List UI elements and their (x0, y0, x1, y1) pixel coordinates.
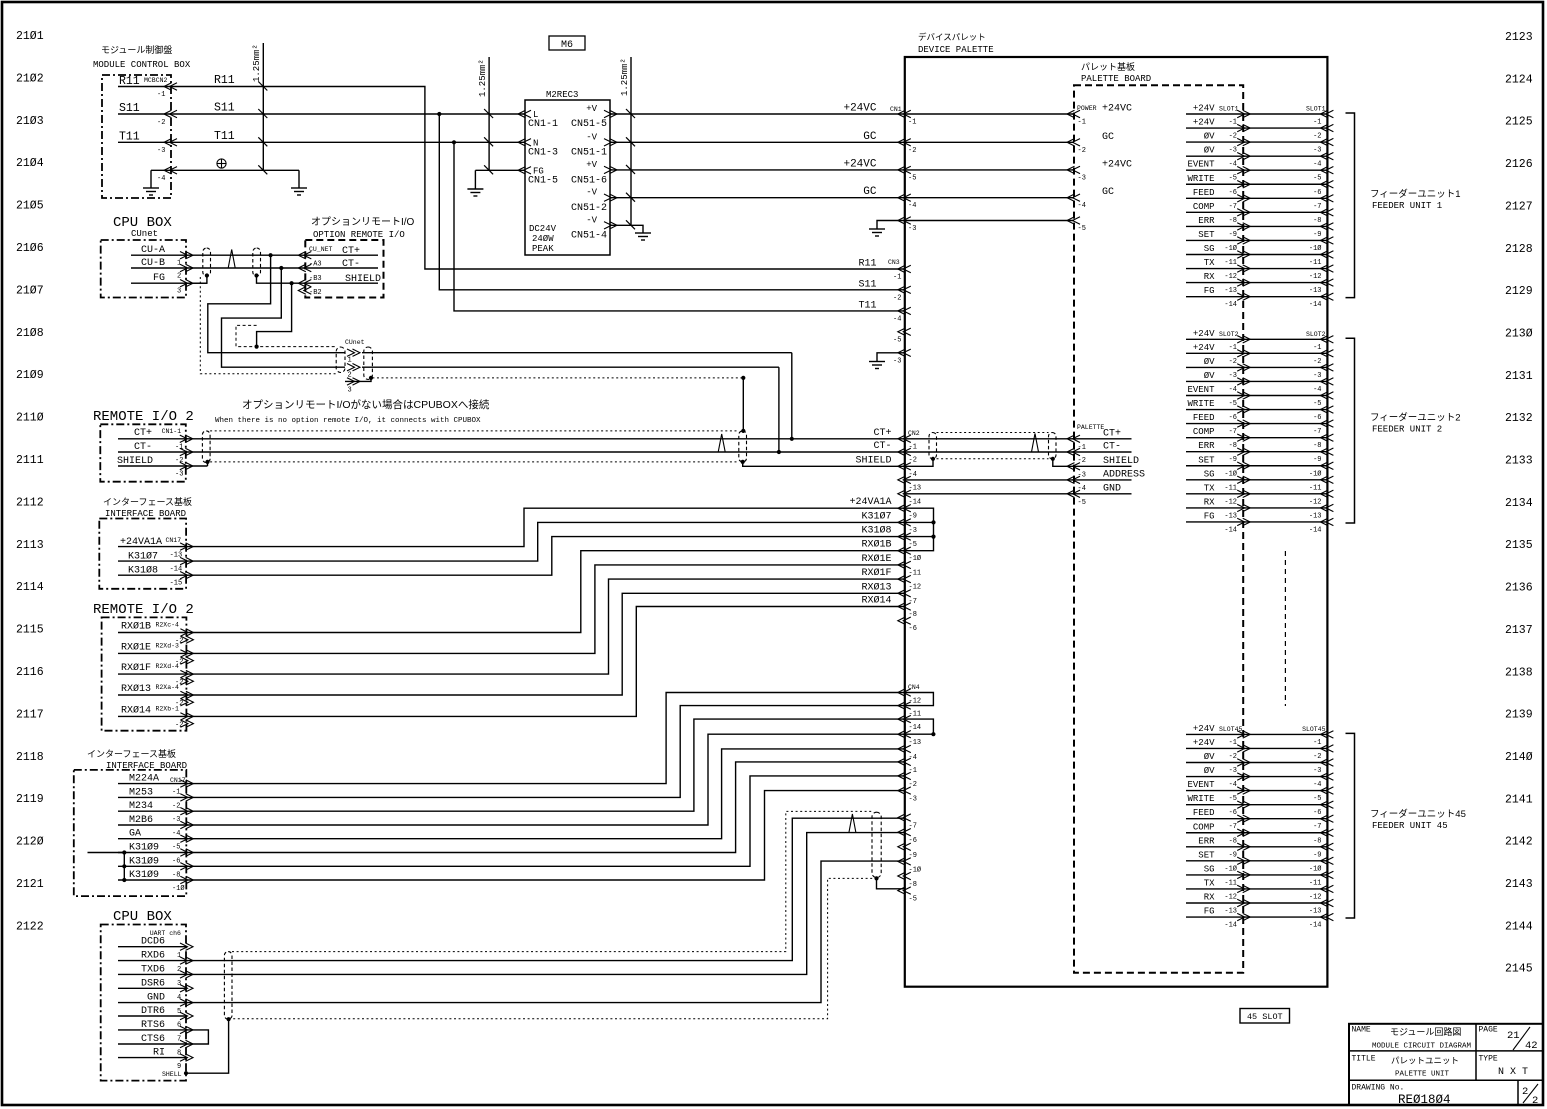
CN4 bus ladder pins -12 -11 (905, 693, 934, 706)
svg-text:-1Ø: -1Ø (1309, 469, 1322, 478)
svg-text:R2Xb-1: R2Xb-1 (156, 705, 180, 712)
CN1 pin -4 GC (898, 194, 906, 201)
wire shield drop to pair shield (742, 378, 744, 431)
svg-text:-12: -12 (1224, 893, 1237, 901)
M2REC3 pin CN51-2 -V (610, 194, 618, 201)
svg-text:-1: -1 (908, 119, 916, 127)
wire GA to CN4 (186, 749, 905, 839)
svg-text:+24V: +24V (1193, 118, 1215, 128)
CN3 pin -3 (898, 349, 906, 356)
twisted pair symbol UART at CN4 (849, 814, 856, 833)
svg-text:-3: -3 (893, 357, 901, 365)
svg-text:CN51-1: CN51-1 (571, 148, 607, 159)
M2REC3 pin CN1-3 N (518, 139, 526, 146)
svg-text:-7: -7 (909, 598, 917, 606)
svg-text:-9: -9 (1313, 851, 1321, 859)
svg-text:FEED: FEED (1193, 188, 1215, 198)
svg-text:FEEDER UNIT 1: FEEDER UNIT 1 (1372, 201, 1442, 211)
svg-text:R2Xd-4: R2Xd-4 (156, 663, 180, 670)
wire K3108 to CN2 (186, 537, 905, 576)
CN3 pin -4 T11 (898, 307, 906, 314)
wire from left edge to K3109 (88, 852, 125, 854)
PALETTE pin -5 GND (1074, 493, 1132, 495)
CN4 pin -13 (898, 731, 906, 738)
svg-text:-7: -7 (1313, 428, 1321, 436)
svg-text:-4: -4 (1229, 386, 1237, 394)
svg-text:45 SLOT: 45 SLOT (1247, 1012, 1283, 1022)
svg-text:SHIELD: SHIELD (855, 455, 891, 466)
wire RX013 to CN2 (186, 593, 905, 695)
remote I/O 2 lower outline (102, 617, 187, 730)
svg-text:MCBCN2: MCBCN2 (144, 77, 168, 84)
shield jog to PALETTE connector (1051, 457, 1055, 461)
svg-text:CT+: CT+ (873, 428, 891, 439)
wire RXD6 to CN4 (186, 818, 905, 960)
svg-text:GC: GC (863, 186, 877, 198)
svg-text:インターフェース基板: インターフェース基板 (87, 748, 176, 759)
svg-text:2114: 2114 (16, 581, 44, 594)
svg-text:-4: -4 (172, 830, 180, 838)
svg-text:-3: -3 (1078, 174, 1086, 182)
PALETTE pin -1 CT+ (1074, 438, 1132, 440)
svg-text:RXØ1E: RXØ1E (121, 641, 151, 653)
svg-text:-4: -4 (1078, 485, 1086, 493)
svg-text:1.25mm²: 1.25mm² (620, 58, 630, 96)
svg-text:-5: -5 (1313, 795, 1321, 803)
K3109 jumper junctions (123, 853, 125, 881)
svg-text:-5: -5 (893, 336, 901, 344)
svg-text:-B2: -B2 (309, 289, 322, 297)
svg-text:EVENT: EVENT (1187, 780, 1215, 790)
svg-text:-11: -11 (1309, 879, 1322, 887)
svg-text:FG: FG (1204, 907, 1215, 917)
svg-text:-5: -5 (1313, 400, 1321, 408)
svg-text:+24V: +24V (1193, 724, 1215, 734)
svg-text:CT+: CT+ (134, 428, 152, 439)
wire CT- to CN2 (186, 451, 905, 453)
CN2 pin -2 CT- (898, 448, 906, 455)
svg-text:RXØ1F: RXØ1F (861, 567, 891, 579)
svg-text:-4: -4 (1229, 781, 1237, 789)
svg-text:DRAWING No.: DRAWING No. (1352, 1084, 1405, 1093)
svg-text:TX: TX (1204, 483, 1215, 493)
svg-text:+V: +V (586, 160, 597, 170)
CPU box UART outline (101, 925, 186, 1081)
svg-text:R11: R11 (214, 74, 235, 87)
svg-text:+V: +V (586, 104, 597, 114)
svg-text:ØV: ØV (1204, 766, 1215, 776)
CN2 pin -3 K3107 (898, 519, 906, 526)
svg-text:-1: -1 (909, 767, 917, 775)
svg-text:WRITE: WRITE (1187, 174, 1214, 184)
CUnet mid pin 1 (353, 349, 361, 356)
SLOT45 wire row 11 SG (1186, 874, 1327, 876)
svg-text:REMOTE I/O 2: REMOTE I/O 2 (93, 409, 194, 425)
svg-text:COMP: COMP (1193, 202, 1215, 212)
svg-text:-1Ø: -1Ø (1224, 864, 1237, 873)
CN2 pin -1 CT+ (898, 435, 906, 442)
CN4 pin -8 (898, 872, 906, 879)
SLOT45 wire row 3 0V (1186, 762, 1327, 764)
svg-text:2125: 2125 (1505, 116, 1533, 129)
wire CT+ inside palette (905, 438, 1074, 440)
svg-text:INTERFACE BOARD: INTERFACE BOARD (105, 509, 186, 519)
svg-text:-7: -7 (1229, 203, 1237, 211)
svg-text:K31Ø7: K31Ø7 (861, 510, 891, 522)
svg-text:-B3: -B3 (309, 275, 322, 283)
svg-text:-8: -8 (1313, 837, 1321, 845)
SLOT2 wire row 9 ERR (1186, 451, 1327, 453)
UART cable shield capsule at CN4 (872, 812, 881, 877)
SLOT1 wire row 10 SET (1186, 239, 1327, 241)
svg-text:21Ø8: 21Ø8 (16, 327, 44, 340)
svg-text:-14: -14 (170, 566, 183, 574)
svg-text:K31Ø9: K31Ø9 (129, 855, 159, 867)
SLOT45 wire row 7 FEED (1186, 818, 1327, 820)
svg-text:-8: -8 (172, 871, 180, 879)
svg-text:SHIELD: SHIELD (1103, 456, 1139, 467)
svg-text:CN1-1: CN1-1 (528, 119, 558, 130)
wire CT+ to CN2 (186, 438, 905, 440)
SLOT45 wire row 14 FG (1186, 916, 1327, 918)
svg-text:R11: R11 (858, 259, 876, 270)
svg-text:RXØ1E: RXØ1E (861, 553, 891, 565)
CN2 pin -14 (898, 490, 906, 497)
svg-text:-13: -13 (1224, 512, 1237, 520)
svg-text:OPTION REMOTE I/O: OPTION REMOTE I/O (313, 230, 405, 240)
svg-text:-2: -2 (1229, 133, 1237, 141)
shield dotted drop from CPU box (200, 277, 336, 374)
svg-text:-2: -2 (1313, 753, 1321, 761)
SLOT45 wire row 1 +24V (1186, 733, 1327, 735)
SLOT2 wire row 11 SG (1186, 479, 1327, 481)
svg-text:TITLE: TITLE (1352, 1055, 1376, 1064)
MCBCN2 pin -4 ground (151, 169, 171, 171)
svg-text:-4: -4 (908, 202, 916, 210)
svg-text:-5: -5 (1313, 175, 1321, 183)
svg-text:-14: -14 (1224, 922, 1237, 930)
wire RX01E to CN2 (186, 565, 905, 654)
twisted pair symbol CUnet (228, 250, 235, 269)
wire +V CN51-6 to CN1-5 (610, 169, 905, 171)
CN4 bus ladder pins -14 -13 (905, 719, 934, 734)
shield dotted pair top line (210, 430, 739, 432)
wire M224A to CN4 (186, 693, 905, 784)
svg-text:-2: -2 (908, 147, 916, 155)
UART shield dotted top (232, 811, 872, 951)
shield dotted CUnet to drop (372, 377, 743, 379)
wire TXD6 to CN4 (186, 833, 905, 975)
svg-text:フィーダーユニット2: フィーダーユニット2 (1370, 412, 1461, 424)
SLOT1 wire row 5 EVENT (1186, 169, 1327, 171)
CN4 pin -14 (898, 715, 906, 722)
title block dividers (1349, 1050, 1543, 1052)
grid reference numbers left column (16, 30, 44, 933)
svg-text:2116: 2116 (16, 666, 44, 679)
svg-text:2136: 2136 (1505, 582, 1533, 595)
svg-text:2137: 2137 (1505, 624, 1533, 637)
svg-text:+24V: +24V (1193, 343, 1215, 353)
svg-text:RXØ14: RXØ14 (121, 704, 151, 716)
wire CN3-3 ground stub (877, 353, 905, 357)
svg-text:When there is no option remote: When there is no option remote I/O, it c… (215, 417, 481, 425)
svg-text:-V: -V (586, 133, 597, 143)
svg-text:RXØ1B: RXØ1B (121, 621, 151, 633)
feeder unit 45 bracket (1346, 733, 1355, 918)
svg-text:ØV: ØV (1204, 357, 1215, 367)
svg-text:ØV: ØV (1204, 752, 1215, 762)
wire CN1 to POWER -2 (905, 141, 1074, 143)
PALETTE pin -2 CT- (1074, 451, 1132, 453)
CN1 pin -2 GC (898, 139, 906, 146)
svg-text:-3: -3 (1229, 147, 1237, 155)
CN4 pin -7 (898, 814, 906, 821)
K3107 bus ladder at CN2 (905, 508, 934, 551)
svg-text:CN1: CN1 (890, 106, 902, 113)
svg-text:-4: -4 (909, 754, 917, 762)
svg-text:+24V: +24V (1193, 329, 1215, 339)
svg-text:212Ø: 212Ø (16, 836, 44, 849)
wire CN1 to POWER -3 (905, 169, 1074, 171)
svg-text:CN1-3: CN1-3 (528, 148, 558, 159)
svg-text:GND: GND (1103, 483, 1121, 494)
M2REC3 pin CN1-5 FG (518, 167, 526, 174)
title block outline (1349, 1024, 1543, 1105)
svg-text:-1: -1 (893, 274, 901, 282)
SLOT2 wire row 6 WRITE (1186, 409, 1327, 411)
svg-text:-11: -11 (1224, 879, 1237, 887)
SLOT45 wire row 5 EVENT (1186, 790, 1327, 792)
svg-text:MODULE CONTROL BOX: MODULE CONTROL BOX (93, 60, 191, 70)
svg-text:GC: GC (1102, 132, 1114, 143)
svg-text:-8: -8 (1229, 837, 1237, 845)
SLOT1 wire row 3 0V (1186, 141, 1327, 143)
svg-text:2133: 2133 (1505, 455, 1533, 468)
wire S11 branch to CN3 (437, 112, 441, 116)
CN2 pin -8 RX014 (898, 603, 906, 610)
svg-text:8: 8 (177, 1050, 181, 1058)
svg-text:CU_NET: CU_NET (309, 246, 333, 253)
svg-text:-14: -14 (1309, 526, 1322, 534)
wire CT+ branch down (269, 253, 273, 257)
wire M253 to CN4 (186, 706, 905, 798)
svg-text:TX: TX (1204, 258, 1215, 268)
svg-text:-1: -1 (172, 789, 180, 797)
label box M6 (549, 36, 585, 50)
ground at CN3-3 (869, 357, 885, 369)
svg-text:SHELL: SHELL (162, 1071, 182, 1078)
svg-text:21Ø7: 21Ø7 (16, 284, 44, 297)
svg-text:PALETTE BOARD: PALETTE BOARD (1081, 74, 1151, 84)
svg-text:-1: -1 (1313, 119, 1321, 127)
wire K3107 to CN2 (186, 522, 905, 561)
wire CN1 to POWER -4 (905, 197, 1074, 199)
svg-text:-9: -9 (1313, 231, 1321, 239)
SLOT1 wire row 12 TX (1186, 268, 1327, 270)
SLOT2 wire row 12 TX (1186, 493, 1327, 495)
wire -V CN51-2 to CN1-4 (610, 197, 905, 199)
device palette outline (905, 57, 1328, 987)
SLOT1 wire row 13 RX (1186, 282, 1327, 284)
SLOT1 wire row 14 FG (1186, 296, 1327, 298)
svg-text:SLOT2: SLOT2 (1219, 331, 1239, 338)
svg-text:CT-: CT- (873, 441, 891, 452)
svg-text:-4: -4 (909, 471, 917, 479)
svg-text:-4: -4 (1313, 161, 1321, 169)
SLOT2 wire row 13 RX (1186, 507, 1327, 509)
svg-text:-3: -3 (1229, 372, 1237, 380)
svg-text:-5: -5 (1229, 175, 1237, 183)
svg-text:2127: 2127 (1505, 200, 1533, 213)
wire CN51-4 to ground (610, 225, 643, 228)
svg-text:WRITE: WRITE (1187, 794, 1214, 804)
svg-text:K31Ø9: K31Ø9 (129, 842, 159, 854)
svg-text:-13: -13 (1309, 287, 1322, 295)
M2REC3 pin CN51-4 -V (610, 222, 618, 229)
CN4 pin -4 (898, 745, 906, 752)
svg-text:1: 1 (177, 952, 181, 960)
svg-text:-3: -3 (1229, 767, 1237, 775)
svg-text:RXØ1F: RXØ1F (121, 662, 151, 674)
svg-text:-13: -13 (909, 484, 922, 492)
svg-text:-5: -5 (908, 174, 916, 182)
svg-text:-9: -9 (1229, 231, 1237, 239)
svg-text:2135: 2135 (1505, 539, 1533, 552)
svg-text:-7: -7 (1229, 428, 1237, 436)
SLOT2 wire row 8 COMP (1186, 437, 1327, 439)
svg-text:-9: -9 (1229, 851, 1237, 859)
wire CN1-3 ground stub (877, 221, 905, 225)
wire CU-B to CT- (186, 267, 305, 269)
power cable 1.25mm2 line C (630, 57, 632, 225)
svg-text:CN51-4: CN51-4 (571, 231, 607, 242)
svg-text:FG: FG (1204, 511, 1215, 521)
wire CN1 to POWER -5 (905, 220, 1074, 222)
svg-text:21Ø3: 21Ø3 (16, 115, 44, 128)
svg-text:-8: -8 (1229, 217, 1237, 225)
wire CN2 to PALETTE ADDRESS (905, 479, 1074, 481)
svg-text:CN51-6: CN51-6 (571, 176, 607, 187)
wire ground row to second ground (171, 169, 299, 171)
svg-text:-3: -3 (1078, 471, 1086, 479)
svg-text:FEED: FEED (1193, 808, 1215, 818)
svg-text:RX: RX (1204, 272, 1215, 282)
svg-text:T11: T11 (858, 300, 876, 311)
svg-text:RX: RX (1204, 893, 1215, 903)
svg-text:CPU BOX: CPU BOX (113, 909, 172, 925)
ground at module control box (150, 170, 152, 183)
svg-text:-3: -3 (908, 225, 916, 233)
junction FG to shield left (186, 276, 207, 284)
svg-text:SET: SET (1198, 230, 1215, 240)
wire CU-A to CT+ (186, 254, 305, 256)
svg-text:-1: -1 (1078, 119, 1086, 127)
svg-text:パレット基板: パレット基板 (1081, 61, 1135, 72)
SLOT45 wire row 9 ERR (1186, 846, 1327, 848)
svg-text:デバイスパレット: デバイスパレット (918, 32, 986, 42)
wire K3109 to CN4 (186, 762, 905, 853)
CN2 pin -11 RX01E (898, 561, 906, 568)
svg-text:SLOT2: SLOT2 (1306, 331, 1326, 338)
svg-text:-6: -6 (1229, 414, 1237, 422)
svg-text:オプションリモートI/O: オプションリモートI/O (311, 216, 415, 228)
svg-text:ADDRESS: ADDRESS (1103, 469, 1145, 480)
wire RX014 to CN2 (186, 607, 905, 717)
svg-text:モジュール制御盤: モジュール制御盤 (101, 44, 172, 55)
svg-text:CN1-5: CN1-5 (528, 176, 558, 187)
svg-text:-6: -6 (1313, 809, 1321, 817)
svg-text:3: 3 (348, 387, 352, 395)
CN4 pin -2 (898, 772, 906, 779)
svg-text:21: 21 (1507, 1030, 1520, 1042)
svg-text:213Ø: 213Ø (1505, 327, 1533, 340)
svg-text:9: 9 (177, 1063, 181, 1071)
svg-text:2134: 2134 (1505, 497, 1533, 510)
svg-text:2126: 2126 (1505, 158, 1533, 171)
svg-text:3: 3 (177, 288, 181, 296)
svg-text:+24VC: +24VC (843, 158, 876, 170)
svg-text:2143: 2143 (1505, 878, 1533, 891)
svg-text:6: 6 (177, 1022, 181, 1030)
CPU box CUnet outline (101, 240, 186, 298)
wire K3109 to CN4 (186, 791, 905, 880)
svg-text:-1Ø: -1Ø (1224, 469, 1237, 478)
wire CUnet 2 to CT- drop (362, 366, 779, 368)
wire +24VA1A to CN2 (186, 508, 905, 546)
svg-text:2: 2 (1532, 1095, 1538, 1107)
svg-text:-13: -13 (170, 552, 183, 560)
svg-text:FG: FG (1204, 286, 1215, 296)
svg-text:7: 7 (177, 1035, 181, 1043)
svg-text:2131: 2131 (1505, 370, 1533, 383)
svg-text:-14: -14 (1224, 526, 1237, 534)
wire SHELL to shield (186, 1019, 229, 1073)
svg-text:2139: 2139 (1505, 709, 1533, 722)
svg-text:-1Ø: -1Ø (172, 884, 185, 893)
svg-text:-2: -2 (1229, 753, 1237, 761)
svg-text:DC24V: DC24V (529, 224, 557, 234)
CUnet mid pin 3 (353, 378, 361, 385)
svg-text:-3: -3 (172, 816, 180, 824)
wire CN1 to POWER -1 (905, 113, 1074, 115)
UART shield dotted bottom (229, 878, 873, 1018)
interface board 1 outline (99, 519, 186, 589)
svg-text:-6: -6 (1313, 414, 1321, 422)
shield capsule inside palette left (929, 433, 937, 459)
PALETTE pin -4 ADDRESS (1074, 479, 1132, 481)
svg-text:RXØ13: RXØ13 (861, 581, 891, 593)
label box 45 SLOT (1240, 1009, 1290, 1024)
svg-text:-1: -1 (1313, 344, 1321, 352)
SLOT2 wire row 1 +24V (1186, 338, 1327, 340)
wire RX01F to CN2 (186, 579, 905, 674)
svg-text:1: 1 (177, 260, 181, 268)
svg-text:PEAK: PEAK (532, 244, 554, 254)
palette board outline (1074, 85, 1243, 973)
CN1 pin -3 (898, 217, 906, 224)
svg-text:RX: RX (1204, 497, 1215, 507)
svg-text:-2: -2 (1229, 358, 1237, 366)
M2REC3 pin CN51-1 -V (610, 139, 618, 146)
CN2 pin -9 +24VA1A (898, 505, 906, 512)
svg-text:2145: 2145 (1505, 963, 1533, 976)
svg-text:WRITE: WRITE (1187, 399, 1214, 409)
svg-text:2113: 2113 (16, 539, 44, 552)
svg-text:-1Ø: -1Ø (1309, 244, 1322, 253)
svg-text:-7: -7 (1313, 823, 1321, 831)
svg-text:ERR: ERR (1198, 441, 1215, 451)
SLOT1 wire row 1 +24V (1186, 113, 1327, 115)
